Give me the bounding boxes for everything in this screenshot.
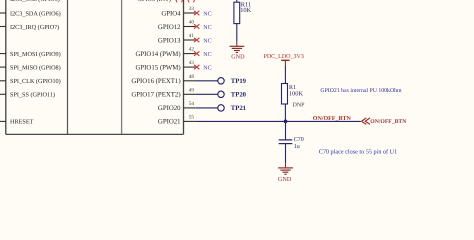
wire C70 to GND bbox=[285, 144, 287, 163]
pin GPIO20 54 bbox=[158, 101, 195, 112]
svg-text:TP21: TP21 bbox=[231, 105, 246, 112]
junction node bbox=[284, 120, 288, 124]
ground pin segment R11 bbox=[236, 42, 238, 47]
resistor R1 (DNP) bbox=[282, 84, 306, 109]
svg-text:GPIO21: GPIO21 bbox=[158, 119, 181, 126]
svg-text:NC: NC bbox=[203, 38, 211, 44]
power port PDC_LDO_3V3 bbox=[264, 54, 304, 66]
svg-text:GND: GND bbox=[278, 176, 292, 183]
test point TP20 bbox=[218, 91, 247, 98]
wire stub above resistor R11 bbox=[236, 0, 238, 2]
wire GPIO16 to TP19 bbox=[195, 80, 217, 82]
svg-text:48: 48 bbox=[189, 74, 195, 80]
partial row0 no-connect red marks bbox=[176, 0, 195, 2]
svg-text:ON/OFF_BTN: ON/OFF_BTN bbox=[370, 119, 407, 125]
svg-text:42: 42 bbox=[189, 47, 195, 53]
svg-text:40: 40 bbox=[189, 20, 195, 26]
no-connect X GPIO14 bbox=[194, 51, 199, 55]
svg-text:TP20: TP20 bbox=[231, 91, 247, 98]
svg-text:41: 41 bbox=[189, 33, 195, 39]
svg-text:GPIO14 (PWM): GPIO14 (PWM) bbox=[135, 51, 180, 58]
svg-text:DNP: DNP bbox=[293, 103, 306, 109]
svg-text:NC: NC bbox=[203, 11, 211, 17]
svg-text:GPIO21 has internal PU 100kOhm: GPIO21 has internal PU 100kOhm bbox=[320, 87, 402, 94]
svg-text:I2C3_SDA (GPIO6): I2C3_SDA (GPIO6) bbox=[10, 10, 61, 17]
pin HRESET bbox=[0, 119, 34, 126]
svg-text:1u: 1u bbox=[294, 144, 300, 150]
svg-text:10K: 10K bbox=[240, 7, 251, 14]
test point TP19 bbox=[218, 78, 247, 85]
no-connect X GPIO15 bbox=[194, 65, 199, 69]
pin GPIO21 55 bbox=[158, 115, 195, 126]
svg-text:ON/OFF_BTN: ON/OFF_BTN bbox=[313, 116, 352, 122]
svg-text:100K: 100K bbox=[289, 91, 303, 98]
svg-text:54: 54 bbox=[189, 101, 195, 107]
pin SPI_CLK (GPIO10) bbox=[0, 78, 61, 85]
pin GPIO17 (PEXT2) 49 bbox=[131, 87, 195, 98]
svg-text:C70 place close to 55 pin of U: C70 place close to 55 pin of U1 bbox=[319, 148, 398, 155]
pin GPIO13 41 bbox=[158, 33, 195, 44]
pin GPIO14 (PWM) 42 bbox=[135, 47, 195, 58]
ground pin segment bbox=[285, 163, 287, 168]
test point TP21 bbox=[218, 105, 246, 112]
svg-text:I2C3_IRQ (GPIO7): I2C3_IRQ (GPIO7) bbox=[10, 24, 59, 31]
resistor R11 bbox=[234, 2, 252, 24]
pin SPI_SS (GPIO11) bbox=[0, 92, 55, 99]
svg-text:SPI_MISO (GPIO8): SPI_MISO (GPIO8) bbox=[10, 64, 61, 71]
chip U1 body bbox=[6, 0, 184, 134]
svg-text:GPIO17 (PEXT2): GPIO17 (PEXT2) bbox=[131, 92, 180, 99]
no-connect X GPIO4 bbox=[194, 11, 199, 15]
wire R11 to GND bbox=[236, 24, 238, 42]
svg-text:C70: C70 bbox=[294, 137, 304, 143]
svg-text:GPIO3 (INT): GPIO3 (INT) bbox=[137, 0, 171, 3]
wire power to R1 bbox=[284, 66, 286, 84]
svg-text:GPIO20: GPIO20 bbox=[158, 105, 181, 112]
svg-text:I2C3_SCL (GPIO5): I2C3_SCL (GPIO5) bbox=[10, 0, 60, 3]
capacitor C70 bbox=[279, 137, 304, 150]
svg-text:SPI_MOSI (GPIO9): SPI_MOSI (GPIO9) bbox=[10, 51, 61, 58]
pin GPIO16 (PEXT1) 48 bbox=[131, 74, 195, 85]
svg-text:NC: NC bbox=[203, 52, 211, 58]
svg-text:GPIO4: GPIO4 bbox=[161, 10, 181, 17]
wire junction to C70 bbox=[285, 121, 287, 139]
svg-text:TP19: TP19 bbox=[231, 78, 247, 85]
svg-text:NC: NC bbox=[203, 66, 211, 72]
svg-text:HRESET: HRESET bbox=[10, 119, 34, 126]
svg-text:NC: NC bbox=[203, 25, 211, 31]
port ON/OFF_BTN chevrons bbox=[362, 118, 370, 125]
svg-text:GPIO12: GPIO12 bbox=[158, 24, 181, 31]
svg-text:55: 55 bbox=[189, 115, 195, 121]
no-connect X GPIO13 bbox=[194, 38, 199, 42]
svg-text:SPI_SS (GPIO11): SPI_SS (GPIO11) bbox=[10, 92, 55, 99]
svg-text:SPI_CLK (GPIO10): SPI_CLK (GPIO10) bbox=[10, 78, 61, 85]
svg-text:GPIO15 (PWM): GPIO15 (PWM) bbox=[135, 64, 180, 71]
svg-text:GND: GND bbox=[231, 54, 245, 61]
pin GPIO4 33 bbox=[161, 6, 195, 17]
svg-text:PDC_LDO_3V3: PDC_LDO_3V3 bbox=[264, 54, 304, 60]
wire GPIO21 to port ON/OFF_BTN bbox=[195, 120, 360, 122]
ground GND under R11 bbox=[230, 46, 245, 52]
wire GPIO20 to TP21 bbox=[195, 107, 217, 109]
svg-text:GPIO16 (PEXT1): GPIO16 (PEXT1) bbox=[131, 78, 180, 85]
svg-text:43: 43 bbox=[189, 60, 195, 66]
pin I2C3_SDA (GPIO6) bbox=[0, 10, 61, 17]
pin SPI_MOSI (GPIO9) bbox=[0, 51, 61, 58]
pin SPI_MISO (GPIO8) bbox=[0, 64, 61, 71]
ground GND under C70 bbox=[278, 168, 293, 174]
svg-text:33: 33 bbox=[189, 6, 195, 12]
pin GPIO15 (PWM) 43 bbox=[135, 60, 195, 71]
pin I2C3_IRQ (GPIO7) bbox=[0, 24, 59, 31]
svg-text:GPIO13: GPIO13 bbox=[158, 37, 181, 44]
svg-text:49: 49 bbox=[189, 87, 195, 93]
pin GPIO12 40 bbox=[158, 20, 195, 31]
no-connect X GPIO12 bbox=[194, 24, 199, 28]
wire GPIO17 to TP20 bbox=[195, 93, 217, 95]
wire R1 to junction bbox=[284, 104, 286, 121]
